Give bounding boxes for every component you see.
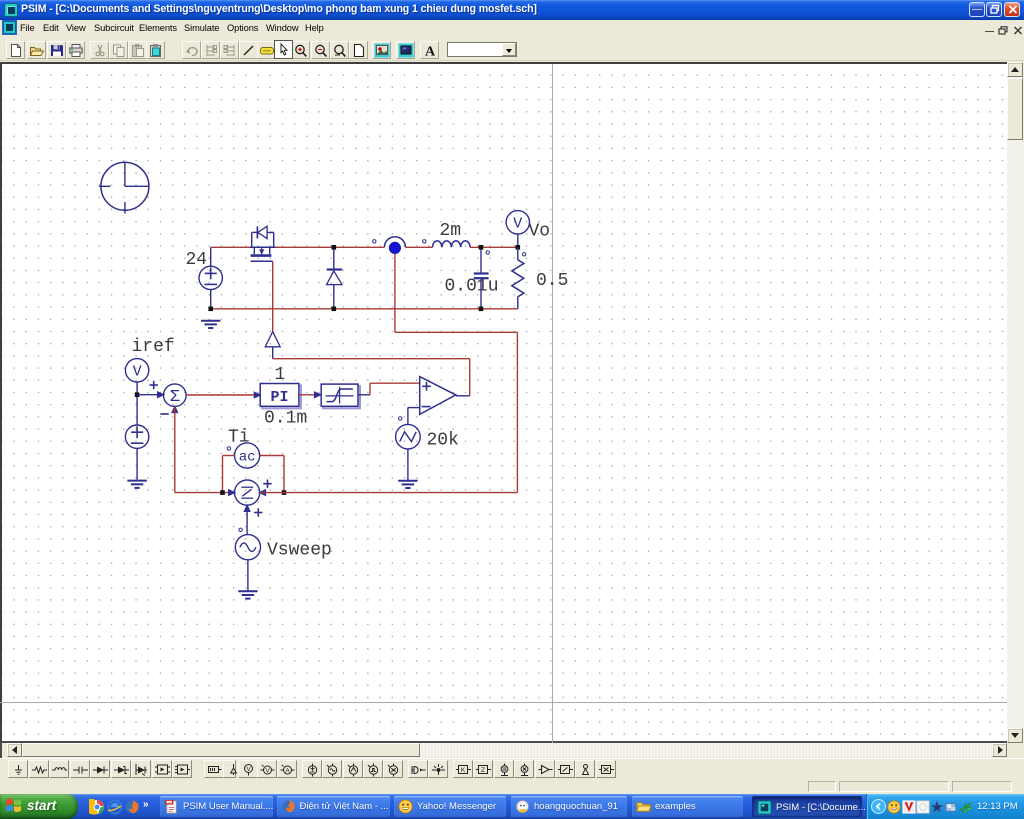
svg-text:0.01u: 0.01u	[445, 277, 499, 297]
svg-text:0.1m: 0.1m	[264, 409, 307, 429]
svg-text:1: 1	[275, 365, 286, 385]
svg-text:iref: iref	[132, 337, 175, 357]
svg-text:24: 24	[186, 250, 208, 270]
svg-text:A: A	[285, 768, 290, 775]
svg-text:ac: ac	[239, 450, 256, 466]
svg-text:V: V	[513, 215, 522, 232]
svg-text:PI: PI	[270, 389, 288, 406]
svg-text:K: K	[461, 767, 466, 774]
svg-text:A: A	[425, 45, 436, 59]
svg-text:Vsweep: Vsweep	[267, 541, 332, 561]
svg-text:20k: 20k	[427, 431, 459, 451]
svg-text:Ti: Ti	[228, 428, 250, 448]
svg-text:V: V	[265, 768, 270, 775]
svg-text:V: V	[133, 363, 142, 380]
svg-text:2m: 2m	[440, 221, 462, 241]
svg-text:Z: Z	[481, 767, 485, 774]
svg-text:Vo: Vo	[529, 222, 551, 242]
svg-text:0.5: 0.5	[536, 271, 568, 291]
svg-text:Σ: Σ	[170, 388, 180, 407]
svg-text:V: V	[246, 766, 251, 773]
